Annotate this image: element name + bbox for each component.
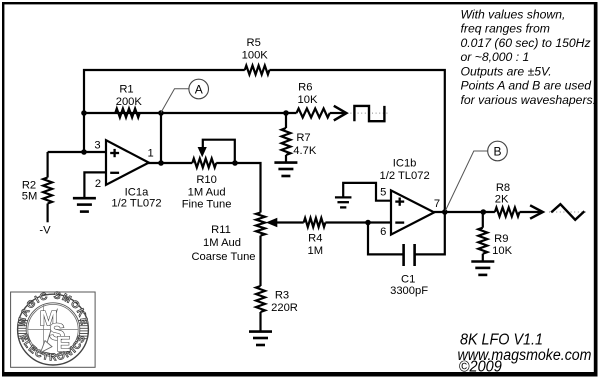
svg-text:C1: C1 (401, 273, 415, 285)
wire R4 to opamp2 -input (325, 221, 391, 223)
svg-text:1M Aud: 1M Aud (188, 186, 226, 198)
ground IC1b pin5 (335, 197, 352, 207)
svg-text:Coarse Tune: Coarse Tune (191, 251, 255, 263)
resistor R2 (43, 178, 52, 204)
resistor R10 (192, 159, 216, 168)
wire opamp1 -input to ground (84, 172, 106, 197)
svg-text:5M: 5M (22, 190, 38, 202)
svg-text:©2009: ©2009 (459, 359, 502, 376)
svg-text:R7: R7 (296, 132, 310, 144)
wire C1 right to output (415, 212, 445, 254)
svg-text:-V: -V (39, 224, 51, 236)
wire opamp2 +input to ground (343, 183, 391, 201)
wire R8 arrow shaft (520, 211, 542, 213)
resistor R5 (245, 66, 270, 75)
svg-text:E: E (56, 332, 70, 356)
node A leader (161, 89, 189, 113)
junction R10 wiper tie (232, 160, 238, 166)
resistor R11 (256, 213, 265, 236)
resistor R6 (297, 109, 330, 118)
svg-text:3300pF: 3300pF (390, 285, 428, 297)
svg-text:2K: 2K (495, 194, 509, 206)
svg-text:R5: R5 (247, 37, 261, 49)
square wave symbol (350, 112, 388, 114)
svg-text:200K: 200K (116, 96, 143, 108)
svg-text:220R: 220R (271, 302, 298, 314)
logo Magic Smoke Electronics (11, 290, 96, 367)
wire opamp2 -input to C1 left (368, 223, 404, 255)
resistor R4 (304, 218, 326, 227)
svg-text:5: 5 (380, 186, 386, 198)
wire R2 top lead (46, 152, 48, 178)
wire bus y113 (84, 112, 297, 114)
svg-text:A: A (195, 82, 203, 96)
arrowhead R11 wiper (266, 218, 278, 227)
svg-text:6: 6 (380, 226, 386, 238)
svg-text:1M Aud: 1M Aud (203, 237, 241, 249)
wire opamp1 output (148, 162, 192, 164)
node B (488, 141, 508, 161)
ground R3 (249, 332, 272, 345)
svg-text:7: 7 (434, 198, 440, 210)
wire R10 right to R11 top (216, 163, 260, 213)
wire R10 wiper loop (203, 140, 235, 163)
ground R9 (471, 262, 494, 275)
svg-text:freq ranges from: freq ranges from (461, 22, 550, 36)
arrowhead R8 output (530, 205, 543, 218)
triangle wave symbol (549, 211, 589, 213)
wire R11 to R3 (259, 236, 261, 286)
svg-text:R9: R9 (494, 233, 508, 245)
wire feedback R5 right (269, 70, 444, 212)
wire R11 wiper to R4 (276, 221, 304, 223)
node B leader (446, 151, 488, 211)
svg-text:R8: R8 (496, 182, 510, 194)
resistor R9 (478, 228, 487, 254)
svg-text:R11: R11 (211, 224, 231, 236)
svg-text:1/2 TL072: 1/2 TL072 (380, 170, 430, 182)
arrowhead R10 wiper (198, 147, 207, 157)
svg-text:Outputs are ±5V.: Outputs are ±5V. (461, 64, 552, 78)
wire R3 bottom lead (259, 312, 261, 331)
capacitor C1 (404, 244, 415, 266)
svg-text:R6: R6 (298, 82, 312, 94)
svg-text:1: 1 (147, 147, 153, 159)
svg-text:3: 3 (94, 139, 100, 151)
svg-text:Fine Tune: Fine Tune (182, 199, 232, 211)
resistor R1 (115, 109, 139, 118)
ground R7 (274, 163, 297, 176)
junction R8/R9 (481, 209, 487, 215)
resistor R7 (282, 113, 291, 162)
wire R6 arrow shaft (330, 112, 345, 114)
svg-text:4.7K: 4.7K (293, 145, 317, 157)
ground IC1a pin2 (73, 198, 96, 211)
wire R9 bottom lead (482, 254, 484, 261)
wire feedback R5 left (84, 70, 245, 152)
svg-text:100K: 100K (242, 50, 269, 62)
svg-text:10K: 10K (492, 245, 512, 257)
svg-text:R1: R1 (119, 83, 133, 95)
svg-text:R10: R10 (196, 174, 217, 186)
junction IC1a noninverting input (81, 149, 87, 155)
svg-text:for various waveshapers.: for various waveshapers. (461, 93, 596, 107)
wire vert x161 (160, 113, 162, 163)
svg-text:1/2 TL072: 1/2 TL072 (111, 197, 161, 209)
resistor R3 (256, 286, 265, 312)
svg-text:R4: R4 (308, 233, 322, 245)
op-amp IC1b (391, 190, 434, 234)
svg-text:B: B (493, 144, 501, 158)
wire opamp2 output (434, 211, 495, 213)
junction R1 left / feedback (81, 110, 87, 116)
junction IC1b output/feedback (442, 209, 448, 215)
svg-text:With values shown,: With values shown, (461, 7, 566, 21)
svg-text:or ~8,000 : 1: or ~8,000 : 1 (461, 50, 530, 64)
wire R2 bottom lead (46, 204, 48, 223)
node A (189, 79, 209, 99)
junction IC1a output (158, 160, 164, 166)
junction node A tap (158, 110, 164, 116)
svg-text:R3: R3 (275, 289, 289, 301)
svg-text:1M: 1M (308, 245, 324, 257)
svg-text:IC1b: IC1b (393, 157, 417, 169)
svg-text:Points A and B are used: Points A and B are used (461, 79, 593, 93)
op-amp IC1a (106, 140, 149, 185)
svg-text:0.017 (60 sec) to 150Hz: 0.017 (60 sec) to 150Hz (461, 36, 591, 50)
junction IC1b inverting input (365, 220, 371, 226)
svg-text:2: 2 (95, 178, 101, 190)
wire opamp1 +input (48, 151, 106, 153)
junction R6/R7 (283, 110, 289, 116)
resistor R8 (495, 208, 520, 217)
arrowhead R6 output (334, 106, 347, 121)
wire R9 top lead (482, 212, 484, 228)
svg-text:10K: 10K (298, 94, 318, 106)
